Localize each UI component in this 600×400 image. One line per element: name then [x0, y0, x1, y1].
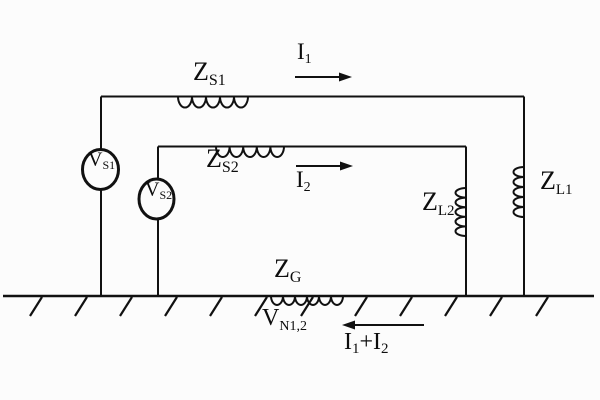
- wire: from V_S1 bottom down to ground: [100, 190, 102, 297]
- wire: second loop vertical from V_S2 up to its top wire: [157, 147, 159, 180]
- inductor Z_S1 (coil): [178, 97, 248, 108]
- wire: left vertical from top wire down to V_S1: [100, 97, 102, 151]
- wire: from V_S2 bottom down to ground: [157, 219, 159, 296]
- ground plane line: [3, 295, 594, 298]
- inductor Z_G (ground impedance coil): [271, 296, 343, 305]
- inductor Z_L2 (coil): [456, 188, 467, 236]
- wire: second loop top horizontal: [158, 146, 466, 148]
- current arrow I2: [296, 162, 353, 171]
- current arrow I1: [295, 73, 352, 82]
- inductor Z_S2 (coil): [216, 147, 284, 158]
- wire: right vertical of inner loop (Z_L2 branch): [465, 147, 467, 297]
- voltage source V_S1 (circle): [83, 150, 119, 190]
- wire: top horizontal (node A to top-right corner): [101, 96, 524, 98]
- wire: right vertical of outer loop (Z_L1 branch): [523, 97, 525, 297]
- voltage source V_S2 (circle): [139, 179, 174, 219]
- ground hatch marks: [30, 297, 548, 316]
- inductor Z_L1 (coil): [514, 167, 525, 217]
- current arrow I1+I2 (return current): [342, 321, 424, 330]
